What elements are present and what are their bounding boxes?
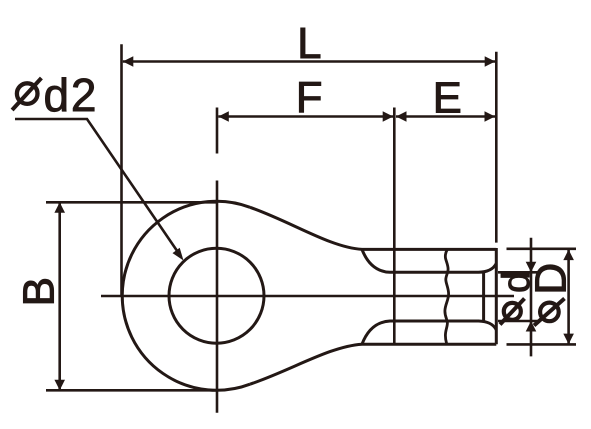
svg-text:B: B: [14, 277, 63, 306]
svg-text:d2: d2: [44, 69, 99, 121]
svg-text:F: F: [296, 74, 323, 122]
svg-text:E: E: [433, 74, 462, 122]
svg-text:D: D: [527, 263, 576, 295]
svg-text:L: L: [297, 20, 321, 68]
